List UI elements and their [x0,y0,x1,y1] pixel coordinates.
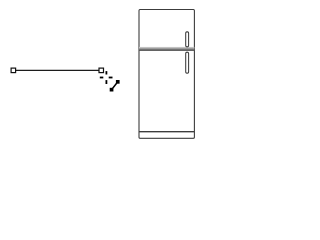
cursor line-tool glyph stroke [112,82,118,90]
refrigerator main door handle [186,52,189,73]
cursor line-tool glyph end square lower-left [110,88,114,92]
cursor crosshair dash left [100,77,104,79]
wire line segment being drawn [16,69,99,71]
refrigerator body outline [139,10,194,139]
refrigerator freezer door handle [186,32,189,47]
cursor crosshair dash right [109,77,113,79]
cursor crosshair dash bottom [106,80,108,84]
node handle left [11,68,16,73]
node handle right [99,68,104,73]
cursor crosshair dash top [106,71,108,74]
cursor line-tool glyph end square upper-right [116,80,120,84]
refrigerator base kick-plate line [139,131,194,133]
